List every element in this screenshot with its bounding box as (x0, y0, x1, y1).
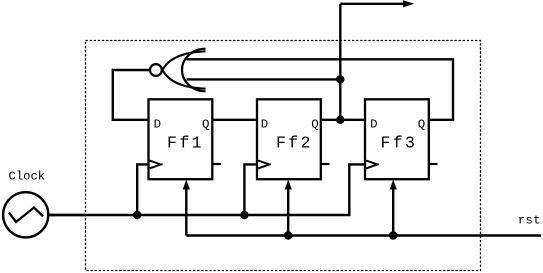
svg-text:Q: Q (311, 118, 318, 132)
svg-text:Ff1: Ff1 (167, 133, 204, 152)
svg-text:D: D (261, 118, 268, 132)
svg-text:Q: Q (202, 118, 209, 132)
svg-text:Ff2: Ff2 (276, 133, 313, 152)
svg-text:Q: Q (418, 118, 425, 132)
svg-text:Ff3: Ff3 (380, 133, 417, 152)
svg-text:rst: rst (518, 214, 541, 228)
svg-text:D: D (154, 118, 161, 132)
svg-text:D: D (370, 118, 377, 132)
svg-text:Clock: Clock (9, 170, 46, 184)
